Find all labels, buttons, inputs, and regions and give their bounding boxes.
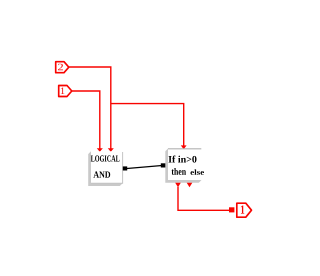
If block xyxy=(168,149,204,181)
AND output port square xyxy=(123,166,127,170)
arrowhead into AND block top (left) xyxy=(97,148,103,152)
If input port square xyxy=(161,163,166,167)
AND block shadow bevel xyxy=(88,151,122,186)
wire from inport 1 to AND block xyxy=(72,91,100,149)
else port arrow (down) xyxy=(187,183,193,188)
inport 1 xyxy=(59,86,72,97)
connector square at outport xyxy=(229,207,234,212)
wire AND output to If input xyxy=(127,165,164,168)
AND block LOGICAL AND xyxy=(91,151,123,183)
wire from then port to outport 1 xyxy=(178,187,229,211)
branch wire to If block xyxy=(111,104,184,146)
arrowhead into AND block top (right) xyxy=(108,148,114,152)
inport 2 xyxy=(56,62,69,73)
wire from inport 2 to AND block xyxy=(69,67,111,149)
If block shadow bevel xyxy=(165,149,201,183)
arrowhead into If block top xyxy=(181,145,187,149)
then port arrow (down) xyxy=(175,183,181,188)
outport 1 xyxy=(237,203,252,217)
